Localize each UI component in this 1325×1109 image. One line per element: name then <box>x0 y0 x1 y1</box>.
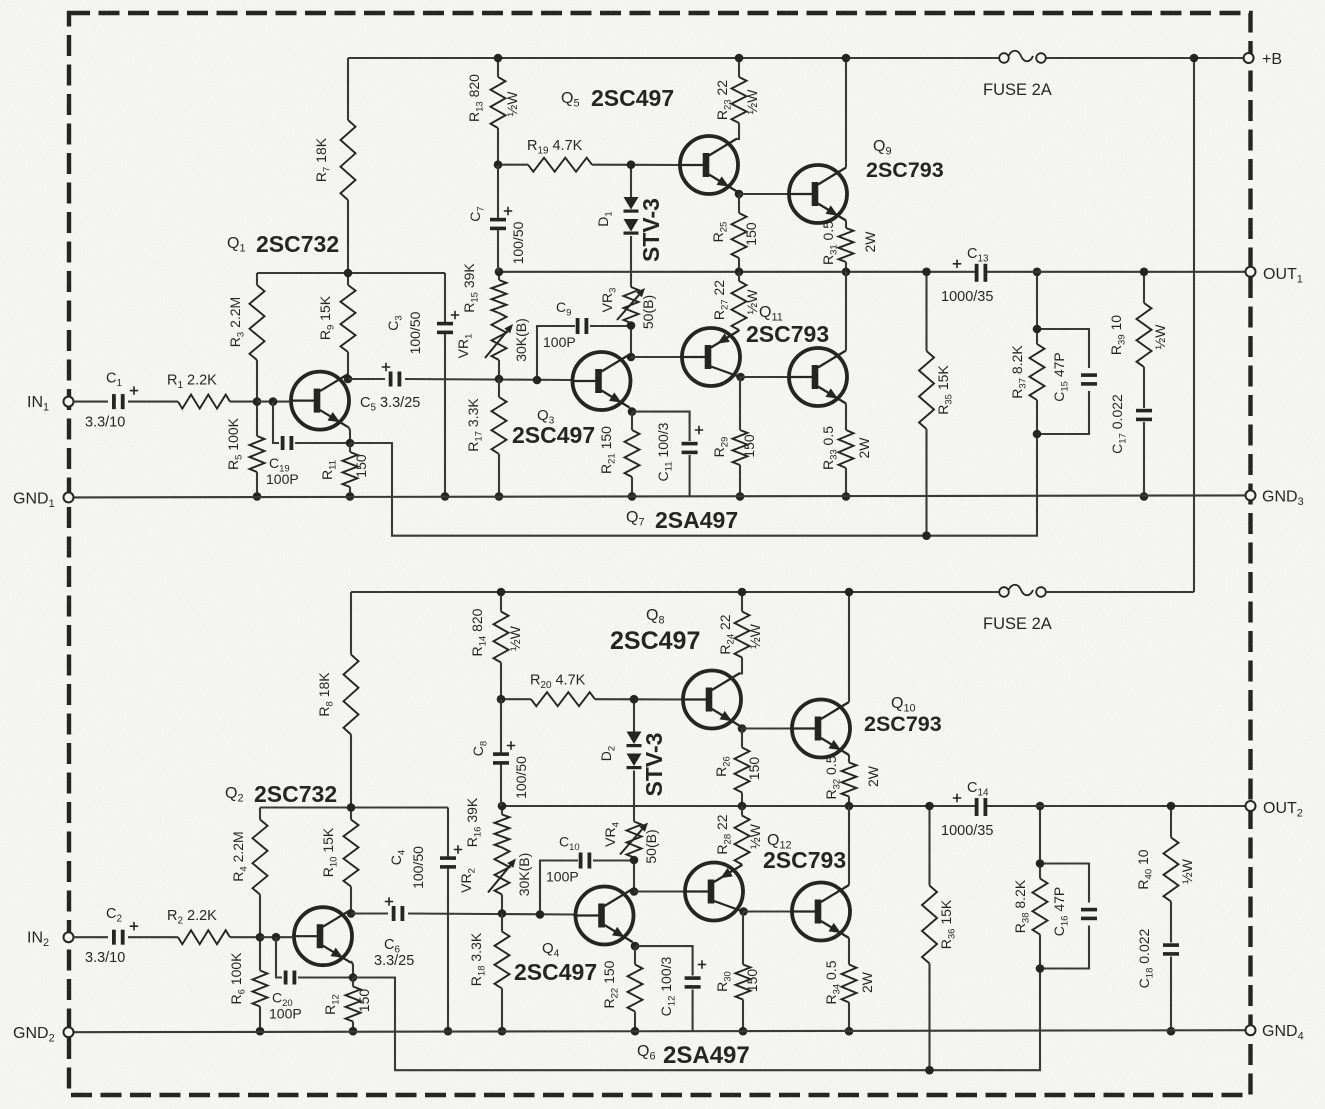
wire 150 stubs <box>349 443 351 496</box>
node feedback box top <box>1036 859 1045 868</box>
wire 15K to collector node <box>350 887 352 914</box>
node input base junction <box>253 397 262 406</box>
node supply line / 18K junction <box>344 269 353 278</box>
wire diode column <box>633 699 635 821</box>
wire C to second base <box>408 914 575 915</box>
resistor R40 10 1/2W <box>1135 838 1195 902</box>
node +B rail at 820 <box>497 588 506 597</box>
resistor R3 2.2M <box>227 285 265 360</box>
wire 22 stubs <box>740 592 742 674</box>
node +B rail at collector <box>845 588 854 597</box>
resistor R31 0.5 2W <box>820 221 878 265</box>
wire 18K stubs <box>350 592 352 820</box>
node emitter junction <box>349 973 358 982</box>
resistor R17 3.3K <box>465 397 507 454</box>
wire Q emitter to junction <box>737 192 739 195</box>
fuse F2 FUSE 2A <box>983 585 1052 633</box>
node lower driver junction <box>739 907 748 916</box>
wire input from IN1 to C <box>73 401 108 403</box>
wire R 2.2M stubs <box>259 808 261 938</box>
node driver emitter junction <box>738 724 747 733</box>
resistor R30 150 <box>714 965 760 1000</box>
node 100P tap on base line <box>536 910 545 919</box>
wire Q collector to OUT <box>848 806 850 885</box>
terminal +B <box>1244 51 1282 68</box>
wire 0.5 stub <box>845 262 847 272</box>
node OUT rail at 150 <box>738 802 747 811</box>
terminal GND2 <box>13 1025 74 1045</box>
potentiometer VR1 30K(B) <box>455 313 529 362</box>
resistor R37 8.2K <box>1009 344 1045 400</box>
resistor R36 15K <box>922 886 958 964</box>
transistor Q7 2SA497 (PNP) <box>626 328 740 533</box>
capacitor C18 0.022 <box>1136 928 1179 988</box>
capacitor C1 3.3/10 <box>85 371 138 431</box>
node emitter junction <box>346 439 355 448</box>
node GND at 100/50 <box>441 492 450 501</box>
wire 3.3K stubs <box>498 379 500 496</box>
node GND at 150 (driver) <box>736 492 745 501</box>
resistor R39 10 1/2W <box>1108 303 1168 367</box>
wire bias column stubs <box>501 806 503 914</box>
wire 150 stubs <box>742 912 744 1032</box>
capacitor C17 0.022 <box>1109 394 1152 454</box>
wire GND rail channel 1 <box>73 495 1251 497</box>
node 100P tap on base line <box>533 376 542 385</box>
wire feedback box <box>1040 806 1089 969</box>
wire 100/50 column <box>447 808 449 1032</box>
node VR bottom / 100P <box>627 321 636 330</box>
resistor R38 8.2K <box>1012 879 1048 935</box>
resistor R9 15K <box>317 285 356 352</box>
resistor R26 150 <box>713 748 762 793</box>
wire R to base node <box>230 936 260 938</box>
node supply line / 18K junction <box>347 803 356 812</box>
node +B rail at 22 <box>735 54 744 63</box>
resistor R19 4.7K <box>527 138 592 172</box>
capacitor C20 100P <box>269 971 302 1022</box>
wire +B rail channel 2 <box>351 591 1194 593</box>
node collector/C junction <box>347 909 356 918</box>
wire 100P upper branch <box>537 326 632 380</box>
node VR bottom / 100P <box>630 856 639 865</box>
node GND at 0.5 <box>845 1027 854 1036</box>
transistor Q11 2SC793 <box>746 304 847 406</box>
capacitor C6 3.3/25 <box>374 897 414 969</box>
wire Q collector up <box>347 374 349 379</box>
terminal GND4 <box>1246 1023 1304 1043</box>
wire 100/3 branch <box>632 412 690 497</box>
node OUT rail at 0.5 <box>845 802 854 811</box>
node feedback at OUT rail <box>1036 802 1045 811</box>
capacitor C9 100P <box>543 299 588 350</box>
node GND at 100K <box>256 1027 265 1036</box>
node driver base node <box>630 887 639 896</box>
wire collector to C <box>351 912 388 914</box>
resistor R18 3.3K <box>468 932 510 989</box>
node 820/4.7K junction <box>494 160 503 169</box>
node VR bottom at base line <box>495 375 504 384</box>
terminal OUT2 <box>1246 800 1303 820</box>
wire Q emitter <box>848 938 850 965</box>
transistor Q6 2SA497 (PNP) <box>637 863 750 1070</box>
resistor R28 22 1/2W <box>714 814 763 864</box>
resistor R35 15K <box>919 351 955 429</box>
wire 820 stubs <box>497 58 499 165</box>
wire Q emitter <box>845 404 847 431</box>
wire 150 stubs <box>739 377 741 496</box>
potentiometer VR4 50(B) <box>602 822 659 864</box>
node diode top junction <box>627 160 636 169</box>
potentiometer VR2 30K(B) <box>458 848 532 897</box>
resistor R22 150 <box>601 960 643 1011</box>
wire Zobel column <box>1143 272 1145 497</box>
wire Q emitter <box>848 755 850 763</box>
wire input from IN2 to C <box>73 936 108 938</box>
capacitor C10 100P <box>546 834 591 885</box>
wire GND rail channel 2 <box>73 1030 1251 1032</box>
resistor R15 39K <box>461 263 507 313</box>
wire 3.3K stubs <box>501 914 503 1032</box>
node +B rail at collector <box>842 54 851 63</box>
resistor R34 0.5 2W <box>823 960 875 1004</box>
resistor R2 2.2K <box>167 908 230 944</box>
wire lower output base line <box>744 910 792 912</box>
resistor R24 22 1/2W <box>717 612 763 658</box>
wire OUT rail channel 2 <box>502 805 1251 807</box>
wire Q emitter <box>630 408 633 412</box>
wire feedback box <box>1037 272 1089 434</box>
node +B rail at 820 <box>494 54 503 63</box>
wire 4.7K wires <box>501 698 683 700</box>
wire +B rail channel 1 <box>348 57 1249 59</box>
node base 100P tap <box>269 397 278 406</box>
wire 15K to collector node <box>347 352 349 379</box>
node feedback at OUT rail <box>1033 268 1042 277</box>
wire VR bottom <box>630 323 632 357</box>
wire R 2.2M stubs <box>256 273 258 402</box>
wire Q collector to bias node <box>630 355 632 358</box>
wire C to R <box>128 401 178 403</box>
capacitor C19 100P <box>266 436 299 487</box>
wire Q emitter <box>845 221 847 229</box>
wire R 100K stubs <box>256 402 258 497</box>
wire 100/50 stubs <box>497 165 499 272</box>
node GND at emitter 150 <box>349 1027 358 1036</box>
wire 18K stubs <box>347 58 349 285</box>
wire 22 stubs <box>741 806 743 866</box>
wire collector supply line <box>257 272 445 274</box>
wire collector supply line <box>260 806 448 808</box>
capacitor C2 3.3/10 <box>85 906 138 966</box>
wire collector to C <box>348 378 385 380</box>
node GND at 100K <box>253 492 262 501</box>
wire 22 stubs <box>737 58 739 139</box>
node GND at emitter 150 <box>346 492 355 501</box>
wire 100/3 branch <box>635 946 693 1031</box>
wire 100P branch <box>276 937 353 977</box>
node diode top junction <box>630 695 639 704</box>
wire diode column <box>630 165 632 287</box>
wire 0.5 stub <box>848 1003 850 1032</box>
node GND at Zobel <box>1167 1027 1176 1036</box>
node GND at 0.5 <box>842 492 851 501</box>
node collector/C junction <box>344 375 353 384</box>
transistor Q3 2SC497 <box>512 352 631 448</box>
wire 100P branch <box>273 402 350 443</box>
wire 150 stubs <box>352 978 354 1032</box>
capacitor C5 3.3/25 <box>360 363 420 414</box>
node input base junction <box>256 933 265 942</box>
wire output base line <box>742 727 792 729</box>
wire VR bottom <box>633 858 635 892</box>
capacitor C15 47P <box>1051 352 1097 402</box>
resistor R14 820 1/2W <box>469 608 523 662</box>
node GND at 3.3K <box>495 492 504 501</box>
terminal OUT1 <box>1246 266 1303 286</box>
node GND at 150 <box>628 492 637 501</box>
node OUT rail left end <box>498 802 507 811</box>
wire C to R <box>128 936 178 938</box>
wire 820 stubs <box>500 592 502 699</box>
resistor R23 22 1/2W <box>714 77 760 123</box>
resistor R4 2.2M <box>230 820 268 895</box>
node driver emitter junction <box>735 190 744 199</box>
wire C to second base <box>405 379 572 380</box>
node feedback box bottom <box>1036 964 1045 973</box>
wire 100/50 column <box>444 273 446 496</box>
node +B rail / channel-2 feed <box>1190 54 1199 63</box>
wire Q emitter down <box>348 427 350 444</box>
node OUT rail at Zobel <box>1167 802 1176 811</box>
node +B rail at 22 <box>738 588 747 597</box>
wire lower output base line <box>741 376 789 378</box>
wire 100P upper branch <box>540 861 635 915</box>
capacitor C11 100/3 <box>655 422 703 481</box>
wire R 100K stubs <box>259 937 261 1031</box>
node 820/4.7K junction <box>497 695 506 704</box>
resistor R29 150 <box>711 430 757 465</box>
capacitor C16 47P <box>1051 887 1097 937</box>
wire feedback line <box>353 969 1040 1071</box>
node feedback box bottom <box>1033 430 1042 439</box>
capacitor C13 1000/35 <box>941 246 993 305</box>
resistor R33 0.5 2W <box>820 426 872 470</box>
capacitor C4 100/50 <box>388 845 462 889</box>
wire Q emitter to junction <box>740 726 742 729</box>
wire Q collector up <box>350 909 352 914</box>
node OUT rail at 15K <box>925 802 934 811</box>
node feedback box top <box>1033 325 1042 334</box>
node OUT rail at 15K <box>922 268 931 277</box>
wire feedback line <box>350 434 1037 536</box>
wire Q collector to OUT <box>845 272 847 351</box>
transistor Q2 2SC732 <box>225 781 352 965</box>
wire 0.5 stub <box>845 468 847 496</box>
terminal IN2 <box>27 930 74 950</box>
node OUT rail left end <box>495 268 504 277</box>
capacitor C3 100/50 <box>385 311 459 355</box>
resistor R21 150 <box>598 426 640 477</box>
resistor R10 15K <box>320 820 359 887</box>
wire Q collector to +B <box>848 592 850 702</box>
node GND at Zobel <box>1140 492 1149 501</box>
potentiometer VR3 50(B) <box>599 287 656 329</box>
node OUT rail at 150 <box>735 268 744 277</box>
wire R to base node <box>230 401 257 403</box>
wire Q emitter <box>633 942 636 946</box>
node GND at 150 (driver) <box>739 1027 748 1036</box>
node VR bottom at base line <box>498 909 507 918</box>
node feedback line at 15K <box>922 531 931 540</box>
resistor R20 4.7K <box>530 673 595 707</box>
resistor R13 820 1/2W <box>466 74 520 128</box>
transistor Q8 2SC497 <box>610 607 741 729</box>
wire base line <box>257 401 291 403</box>
resistor R12 150 <box>322 987 372 1022</box>
terminal GND3 <box>1246 488 1304 508</box>
wire Q collector down <box>742 910 745 912</box>
node GND at 100/50 <box>444 1027 453 1036</box>
resistor R7 18K <box>313 120 356 200</box>
diode D2 STV-3 <box>598 732 667 797</box>
resistor R1 2.2K <box>167 373 230 409</box>
fuse F1 FUSE 2A <box>983 51 1052 99</box>
resistor R16 39K <box>464 797 510 847</box>
wire Q collector to +B <box>845 58 847 168</box>
node emitter node <box>628 407 637 416</box>
wire 15K stubs <box>925 272 927 536</box>
resistor R32 0.5 2W <box>823 755 881 799</box>
wire 0.5 stub <box>848 797 850 807</box>
wire 15K stubs <box>928 806 930 1070</box>
transistor Q1 2SC732 <box>227 231 349 430</box>
node driver base node <box>627 353 636 362</box>
resistor R6 100K <box>228 952 268 1007</box>
wire 150 stubs <box>631 412 633 497</box>
node GND at 3.3K <box>498 1027 507 1036</box>
wire 150 stubs <box>741 729 743 807</box>
node OUT rail at Zobel <box>1140 268 1149 277</box>
terminal IN1 <box>27 394 74 414</box>
capacitor C14 1000/35 <box>941 780 993 839</box>
transistor Q12 2SC793 <box>763 832 850 941</box>
wire 4.7K wires <box>498 164 680 166</box>
resistor R8 18K <box>316 655 359 735</box>
wire Zobel column <box>1170 806 1172 1031</box>
node base 100P tap <box>272 933 281 942</box>
wire output base line <box>739 193 789 195</box>
diode D1 STV-3 <box>595 197 664 262</box>
wire 150 stubs <box>634 946 636 1031</box>
wire driver base line <box>631 356 682 358</box>
wire OUT rail channel 1 <box>499 271 1251 273</box>
resistor R11 150 <box>319 452 369 487</box>
node feedback line at 15K <box>925 1066 934 1075</box>
transistor Q10 2SC793 <box>790 695 942 758</box>
resistor R27 22 1/2W <box>711 280 760 330</box>
capacitor C7 100/50 <box>467 206 526 264</box>
capacitor C8 100/50 <box>470 741 529 799</box>
node emitter node <box>631 942 640 951</box>
wire +B feed to channel 2 <box>1193 58 1195 592</box>
wire 150 stubs <box>738 194 740 272</box>
wire 100/50 stubs <box>500 699 502 806</box>
node OUT rail at 0.5 <box>842 268 851 277</box>
wire base line <box>260 936 294 938</box>
transistor Q4 2SC497 <box>514 887 634 986</box>
wire bias column stubs <box>498 272 500 379</box>
transistor Q9 2SC793 <box>787 138 944 223</box>
node lower driver junction <box>736 373 745 382</box>
resistor R5 100K <box>225 417 265 472</box>
resistor R25 150 <box>710 213 759 258</box>
wire Q emitter down <box>351 961 353 978</box>
wire Q collector down <box>739 376 742 378</box>
wire driver base line <box>634 890 685 892</box>
wire Q collector to bias node <box>633 889 635 892</box>
terminal GND1 <box>13 490 74 510</box>
transistor Q5 2SC497 <box>561 85 738 194</box>
capacitor C12 100/3 <box>658 956 706 1016</box>
node GND at 150 <box>631 1027 640 1036</box>
wire 22 stubs <box>738 272 740 331</box>
